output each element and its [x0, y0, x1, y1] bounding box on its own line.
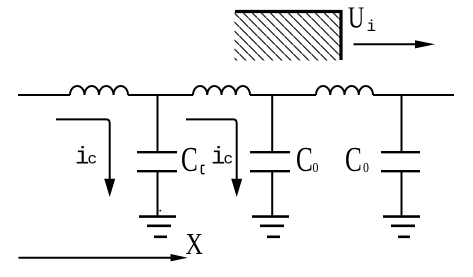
svg-text:C: C: [345, 140, 362, 179]
svg-text:C: C: [181, 140, 198, 179]
svg-text:c: c: [88, 151, 98, 169]
svg-text:C: C: [296, 140, 313, 179]
svg-text:0: 0: [363, 159, 369, 175]
svg-text:X: X: [186, 227, 203, 262]
svg-text:U: U: [348, 0, 364, 34]
svg-text:0: 0: [313, 159, 319, 175]
svg-text:i: i: [367, 18, 377, 36]
svg-text:c: c: [224, 151, 234, 169]
